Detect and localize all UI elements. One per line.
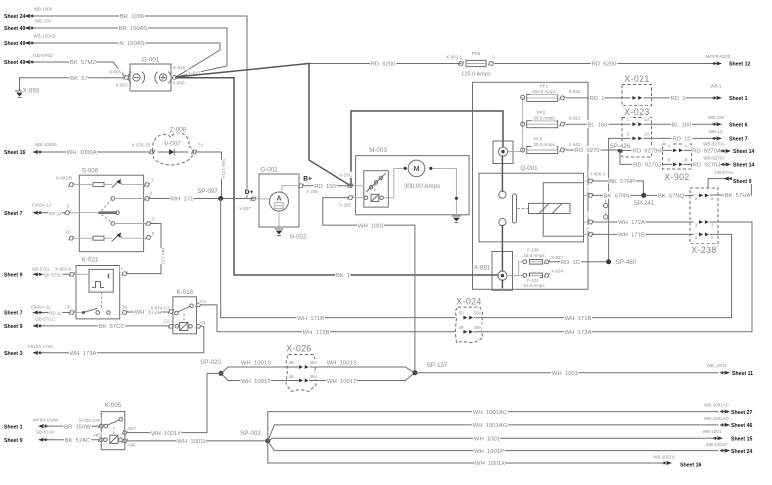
svg-text:BK 57SL: BK 57SL — [44, 273, 62, 278]
pins 2/2A — [632, 137, 642, 141]
wire contact to motor — [384, 168, 404, 197]
wire WH 1001X — [268, 462, 663, 464]
svg-text:WB-1001P: WB-1001P — [706, 442, 728, 447]
pin D+ X-237 — [251, 196, 257, 201]
sheet ref Sheet 24 — [724, 449, 730, 453]
svg-text:Sheet 16: Sheet 16 — [4, 150, 25, 156]
wire bus stud to switch contact — [501, 156, 503, 191]
junction SP-002 — [265, 438, 270, 443]
fuse feed column — [522, 97, 524, 151]
power distribution enclosure — [473, 82, 589, 289]
svg-text:A: A — [684, 143, 687, 148]
svg-text:Sheet 11: Sheet 11 — [732, 371, 753, 377]
svg-text:Sheet 49: Sheet 49 — [4, 41, 25, 47]
wire RD 1L — [43, 312, 70, 314]
svg-text:Sheet 7: Sheet 7 — [729, 137, 748, 143]
pins 45/45A — [299, 365, 309, 369]
svg-text:X-026: X-026 — [286, 344, 311, 354]
svg-text:X-924: X-924 — [551, 268, 564, 273]
starter motor M-003 box — [356, 156, 470, 215]
svg-text:WH 1001: WH 1001 — [358, 223, 384, 229]
pins A/A — [673, 149, 683, 153]
wire WH 1001 vertical to SP-137 — [414, 225, 416, 373]
svg-text:49: 49 — [458, 325, 464, 330]
pins X-021 — [632, 96, 642, 100]
switch blade — [513, 194, 517, 223]
svg-text:Sheet 9: Sheet 9 — [4, 273, 23, 279]
wire RD 1 — [566, 97, 630, 99]
svg-text:15.0 Amps: 15.0 Amps — [523, 253, 545, 258]
wire BK 57NQ — [646, 194, 698, 196]
svg-text:X-920: X-920 — [568, 89, 581, 94]
svg-text:RD 1: RD 1 — [589, 96, 604, 102]
svg-text:WB-9270A: WB-9270A — [703, 141, 725, 146]
diode symbol — [169, 149, 174, 155]
svg-text:MGFB-6200: MGFB-6200 — [706, 54, 731, 59]
svg-text:BK 57AC: BK 57AC — [65, 438, 92, 444]
wire BK 57MZ diag to battery - — [113, 62, 124, 78]
svg-text:A: A — [276, 196, 281, 203]
svg-text:Sheet 46: Sheet 46 — [731, 423, 752, 429]
svg-text:RD 9270H: RD 9270H — [632, 149, 661, 155]
svg-text:GB-57CC: GB-57CC — [35, 316, 55, 321]
svg-text:X-238: X-238 — [691, 245, 716, 255]
svg-text:WH 171B: WH 171B — [565, 316, 592, 322]
pin Q-001 4 — [588, 232, 594, 237]
wire bus switch to X-891 — [501, 226, 503, 271]
wire WH 171A down to WH 171B — [220, 199, 222, 318]
wire WH 171 to SP-097 and D+ — [149, 198, 253, 200]
svg-text:WH 1001AC: WH 1001AC — [473, 410, 508, 416]
svg-text:Sheet 9: Sheet 9 — [4, 438, 23, 444]
svg-text:1A: 1A — [644, 117, 650, 122]
wire RD 1C vertical — [608, 138, 610, 261]
wire BL 160 to sheet 6 — [644, 123, 717, 125]
svg-text:G-001: G-001 — [142, 57, 160, 64]
svg-text:WH 173A: WH 173A — [70, 351, 97, 357]
wire RO 9270 — [566, 149, 617, 151]
svg-text:B: B — [667, 157, 670, 162]
svg-text:X-023: X-023 — [624, 107, 649, 117]
pin 1 — [144, 196, 150, 201]
svg-text:RD 9270J: RD 9270J — [693, 163, 721, 169]
stud housing bottom — [492, 252, 513, 291]
solenoid box — [364, 171, 389, 207]
connector X-238 — [690, 188, 718, 244]
pin Q-001 Y-466-3 — [588, 179, 594, 184]
relay K-005 box — [101, 412, 125, 450]
svg-text:WH 1001X: WH 1001X — [475, 461, 505, 467]
svg-text:C4: C4 — [200, 299, 206, 304]
svg-text:WH 1001S: WH 1001S — [327, 361, 357, 367]
svg-text:X-035-A30: X-035-A30 — [79, 418, 101, 423]
wire into solenoid — [353, 185, 364, 187]
sheet ref Sheet 9 (BK 57CC) — [3, 323, 25, 330]
wire WH 1001 from starter — [323, 198, 415, 226]
svg-text:WB-1000A: WB-1000A — [35, 142, 57, 147]
junction SP-020 — [219, 371, 224, 376]
sheet ref Sheet 7 (RD 1L) — [3, 309, 25, 316]
svg-text:WH 1001: WH 1001 — [474, 436, 500, 442]
node motor right — [429, 167, 432, 170]
wire RD 9270H — [622, 149, 672, 151]
svg-text:Sheet 15: Sheet 15 — [731, 436, 752, 442]
relay K-018 box — [173, 297, 197, 334]
svg-text:50A: 50A — [473, 311, 481, 316]
pin C3 — [168, 309, 174, 314]
pin 9 — [146, 235, 152, 240]
ground N-002 — [275, 228, 283, 230]
svg-text:Sheet 49: Sheet 49 — [4, 60, 25, 66]
svg-text:250.0 Amps: 250.0 Amps — [532, 89, 557, 94]
svg-text:WH 172A: WH 172A — [618, 220, 645, 226]
pin A86 — [122, 439, 128, 444]
wire WH 171B vertical to X-238 — [731, 234, 733, 317]
ground X-893 — [16, 90, 24, 92]
svg-text:WH 1001L: WH 1001L — [177, 439, 207, 445]
svg-text:WH 172A: WH 172A — [565, 330, 592, 336]
wire to F-101 — [519, 274, 523, 276]
svg-text:Sheet 24: Sheet 24 — [731, 449, 752, 455]
svg-text:RO 1J: RO 1J — [49, 211, 62, 216]
svg-text:RD 6200: RD 6200 — [371, 62, 397, 68]
svg-text:50: 50 — [458, 311, 464, 316]
svg-text:X-201: X-201 — [339, 173, 352, 178]
svg-text:WB-1001AG: WB-1001AG — [704, 416, 730, 421]
sheet ref Sheet 49 (3) — [3, 59, 28, 66]
wire WH 1001L — [127, 440, 266, 442]
svg-text:PF2: PF2 — [537, 110, 546, 115]
connector X-021 — [622, 85, 652, 106]
svg-text:X-024: X-024 — [456, 297, 481, 307]
svg-text:WH 171: WH 171 — [171, 197, 194, 203]
battery pin X-800 — [172, 75, 178, 80]
svg-text:C2: C2 — [164, 319, 170, 324]
junction SP-426 — [618, 148, 623, 153]
svg-text:PFB: PFB — [472, 51, 481, 56]
svg-text:BR 150AS: BR 150AS — [118, 26, 147, 32]
svg-text:X-805: X-805 — [109, 70, 122, 75]
svg-text:SP-426: SP-426 — [610, 143, 631, 150]
battery + terminal — [159, 74, 166, 81]
wire RD 150 alternator B+ to starter — [303, 185, 348, 187]
sheet ref Sheet 7 — [3, 209, 25, 216]
connector X-024 cloud — [455, 307, 482, 343]
fuse PF2 30.0 Amps — [521, 122, 525, 126]
svg-text:125.0 Amps: 125.0 Amps — [461, 72, 491, 78]
pin C1 — [196, 324, 202, 329]
svg-text:WB-160: WB-160 — [708, 115, 725, 120]
alternator G-002 box — [259, 174, 299, 227]
wire into contact — [353, 197, 365, 199]
wire BK 57MZ — [35, 61, 113, 63]
svg-text:BL 160: BL 160 — [671, 122, 692, 128]
sheet ref Sheet 49 — [3, 25, 28, 32]
sheet ref Sheet 11 — [724, 371, 730, 375]
wire WH 172A timer to relay K-018 — [127, 311, 169, 313]
svg-text:WFB3-150W: WFB3-150W — [33, 418, 60, 423]
stud terminal top — [498, 147, 507, 156]
wire timer pin7 to switch — [127, 273, 161, 275]
svg-text:BK 1: BK 1 — [336, 273, 350, 279]
svg-text:RD 9270J: RD 9270J — [633, 163, 661, 169]
svg-text:WH 1001: WH 1001 — [552, 371, 578, 377]
wire BK 57SL — [43, 273, 70, 275]
solenoid contact — [364, 196, 368, 200]
svg-text:t: t — [107, 274, 110, 281]
wire BK 57 — [20, 77, 125, 79]
battery G-001 — [130, 64, 171, 91]
K-005 contact lever — [104, 424, 108, 428]
svg-text:RD 9270A: RD 9270A — [692, 149, 721, 155]
svg-text:Q-001: Q-001 — [520, 165, 538, 172]
wire battery + to RD 6200 node — [176, 64, 309, 78]
pin 6 — [69, 310, 75, 315]
wire stud to fuse column — [508, 151, 521, 153]
wire RO 1J — [43, 212, 66, 214]
svg-text:WH 171B: WH 171B — [297, 316, 324, 322]
svg-text:Sheet 24: Sheet 24 — [4, 14, 25, 20]
svg-text:WH 1001AG: WH 1001AG — [473, 423, 508, 429]
svg-text:RD 1L: RD 1L — [49, 311, 62, 316]
svg-text:PF9: PF9 — [534, 136, 543, 141]
svg-text:300.00 Amps: 300.00 Amps — [404, 183, 440, 190]
svg-text:BR 150W: BR 150W — [64, 424, 91, 430]
sheet ref Sheet 1 (right) — [716, 96, 722, 100]
wire WH 172A vertical to X-238 — [751, 222, 753, 332]
pin 2 — [65, 210, 71, 215]
svg-text:GB-57AC: GB-57AC — [36, 430, 56, 435]
svg-text:46A: 46A — [309, 374, 317, 379]
wire starter B+ to switch stud — [351, 111, 503, 186]
wire BR 1006 — [35, 15, 247, 17]
svg-text:SP-002: SP-002 — [240, 430, 261, 437]
wire BK 57NN — [593, 194, 642, 196]
svg-text:WH 1001P: WH 1001P — [474, 449, 504, 455]
unused pins column — [605, 200, 607, 204]
wire WH 171A — [196, 151, 221, 153]
wire BR 150W — [49, 425, 100, 427]
svg-text:X-602-9: X-602-9 — [55, 267, 72, 272]
svg-text:WH 1001S: WH 1001S — [241, 361, 271, 367]
pins 2/2 — [699, 194, 709, 198]
svg-text:WH 171B: WH 171B — [618, 233, 645, 239]
svg-text:M: M — [414, 166, 420, 173]
wire BR 1006 vertical to D+ — [246, 16, 248, 199]
wire BK 57CC to relay C2 — [43, 325, 169, 327]
sheet ref Sheet 9 — [3, 271, 25, 278]
wire alternator to ground — [278, 211, 280, 229]
switch row lower contact — [79, 237, 93, 239]
svg-text:B: B — [684, 157, 687, 162]
wire RD 1C lower — [550, 261, 607, 263]
switch contact lower — [499, 219, 506, 226]
pin 7 — [122, 271, 128, 276]
switch contact upper — [499, 191, 506, 198]
svg-text:K-018: K-018 — [176, 289, 193, 296]
pin X-201 — [348, 183, 354, 188]
svg-text:WB_1001: WB_1001 — [707, 363, 727, 368]
wire RD 6200 to sheet 12 — [495, 63, 713, 65]
svg-text:N 150AS: N 150AS — [119, 41, 144, 47]
wire WH 171B (Q-001 to X-238) — [593, 233, 699, 235]
svg-text:X-891: X-891 — [474, 265, 491, 272]
wire RD 1 to sheet 1 — [644, 97, 717, 99]
svg-text:Sheet 12: Sheet 12 — [729, 62, 750, 68]
svg-text:X-236: X-236 — [306, 189, 319, 194]
connector X-026 cloud — [286, 355, 316, 392]
svg-text:WB-150: WB-150 — [35, 19, 52, 24]
K-005 coil resistor — [110, 435, 118, 443]
svg-text:WH 1000A: WH 1000A — [67, 150, 97, 156]
svg-text:S-006: S-006 — [82, 168, 99, 175]
wire to sheet 9 arrow — [708, 178, 751, 180]
svg-text:WB-1006: WB-1006 — [34, 7, 53, 12]
wire WH 171B — [221, 317, 455, 319]
svg-text:SP-241: SP-241 — [634, 200, 655, 207]
wire WH 1001S right — [310, 367, 415, 373]
wire WH 171A vertical — [221, 152, 223, 199]
pins 49/49A — [463, 330, 473, 334]
wire BK 57NP — [593, 180, 644, 182]
svg-text:Y-466-3: Y-466-3 — [590, 172, 606, 177]
svg-text:10: 10 — [65, 230, 71, 235]
svg-text:Sheet 49: Sheet 49 — [4, 26, 25, 32]
svg-text:Sheet 3: Sheet 3 — [4, 351, 23, 357]
sheet ref Sheet 7 (right) — [716, 136, 722, 140]
sheet ref Sheet 16 (bottom) — [666, 461, 672, 465]
pins 3/3 — [699, 220, 709, 224]
node motor left — [404, 167, 407, 170]
sheet ref Sheet 16 — [3, 149, 28, 156]
wire WH 171B right of X-238 — [710, 233, 732, 235]
svg-text:SP-020: SP-020 — [200, 359, 221, 366]
svg-text:Sheet 7: Sheet 7 — [4, 311, 23, 317]
connector X-902 — [663, 144, 692, 169]
wire N 150AS — [35, 42, 220, 44]
pin 10 — [69, 236, 75, 241]
pin Q-001 2 — [588, 193, 594, 198]
svg-text:WB-1001: WB-1001 — [703, 429, 722, 434]
svg-text:WH 1001T: WH 1001T — [327, 379, 357, 385]
svg-text:K-021: K-021 — [82, 257, 99, 264]
svg-text:Sheet 9: Sheet 9 — [733, 179, 752, 185]
fuse PF1 250.0 Amps — [521, 95, 525, 99]
svg-text:PF1: PF1 — [540, 84, 549, 89]
svg-text:G-002: G-002 — [260, 167, 278, 174]
stud terminal X-891 — [498, 271, 507, 280]
svg-text:RD 6200: RD 6200 — [592, 62, 618, 68]
svg-text:45A: 45A — [309, 360, 317, 365]
svg-text:BL 160: BL 160 — [587, 122, 608, 128]
node — [455, 197, 458, 200]
svg-text:WB-1: WB-1 — [710, 84, 722, 89]
sheet ref Sheet 14 — [725, 149, 731, 153]
wire WH 172A (Q-001 to X-238) — [593, 221, 699, 223]
svg-text:A85: A85 — [93, 433, 102, 438]
motor M symbol — [408, 160, 425, 177]
svg-text:X-902: X-902 — [664, 172, 689, 182]
fuse PF9 30.0 Amps — [521, 148, 525, 152]
svg-text:30.0 Amps: 30.0 Amps — [533, 142, 555, 147]
svg-text:WB-150AS: WB-150AS — [33, 34, 55, 39]
wire bus below X-891 — [501, 280, 503, 287]
svg-text:F260A-1J: F260A-1J — [32, 203, 52, 208]
wire RD 1C to sheet 7 — [644, 137, 717, 139]
wire WH 1000A — [43, 151, 150, 153]
pin X-076-7B — [149, 150, 155, 155]
svg-text:RD 1C: RD 1C — [672, 137, 692, 143]
svg-text:Sheet 14: Sheet 14 — [733, 149, 754, 155]
timer element — [89, 269, 113, 292]
wire WH 1001T left — [221, 373, 298, 380]
wire WH 1001AC — [268, 411, 718, 413]
battery disconnect switch Q-001 box — [479, 173, 584, 242]
svg-text:WH 1001Y: WH 1001Y — [151, 431, 181, 437]
sheet ref Sheet 46 — [724, 423, 730, 427]
wire BK 57AC — [49, 439, 100, 441]
pins B/B — [673, 163, 683, 167]
wire RD 6200 to fuse PFB — [309, 63, 461, 65]
pin B+ X-236 — [298, 183, 304, 188]
svg-text:Sheet 14: Sheet 14 — [733, 163, 754, 169]
switch handle — [529, 203, 571, 213]
pin K-021 left — [69, 272, 75, 277]
sheet ref Sheet 3 — [3, 349, 25, 356]
pin X-202 — [348, 195, 354, 200]
svg-text:WH 1001T: WH 1001T — [241, 379, 271, 385]
wire WH 1001 — [268, 438, 714, 441]
wire WH 173A relay C1 to sheet 3 — [43, 326, 204, 353]
svg-text:GB-57SL: GB-57SL — [32, 267, 51, 272]
svg-text:Z-008: Z-008 — [170, 127, 187, 134]
wire WH 1001Y to K-005 — [127, 373, 221, 432]
switch row upper contact — [79, 184, 93, 186]
sheet ref Sheet 6 — [716, 122, 722, 126]
wire BK 57HA — [710, 194, 751, 196]
wire SP-002 bracket — [267, 412, 269, 463]
wire WH 1001 to sheet 11 — [415, 372, 718, 374]
svg-text:X-893: X-893 — [23, 88, 40, 95]
svg-text:GB-57MZ: GB-57MZ — [33, 53, 53, 58]
svg-text:BK 57: BK 57 — [70, 76, 88, 82]
svg-text:7A: 7A — [198, 143, 204, 148]
svg-text:BK 57NQ: BK 57NQ — [658, 194, 685, 200]
wire RD 1C upper — [609, 137, 630, 139]
fuse F-100 15.0 Amps — [523, 260, 527, 264]
wire N 150AS to battery + — [176, 43, 220, 77]
switch rotary wiper — [79, 212, 99, 214]
svg-text:X-202: X-202 — [339, 203, 352, 208]
wire WH 1001AG — [268, 425, 718, 441]
svg-text:BK 57MZ: BK 57MZ — [70, 60, 97, 66]
svg-text:GB-57HA: GB-57HA — [714, 170, 733, 175]
svg-text:Sheet 27: Sheet 27 — [731, 410, 752, 416]
svg-text:RD 1: RD 1 — [670, 96, 685, 102]
sheet ref Sheet 12 — [716, 61, 722, 65]
pin 7A — [191, 150, 197, 155]
wire B+ out of alternator — [282, 186, 299, 193]
svg-text:C1: C1 — [200, 320, 206, 325]
ignition switch S-006 box — [79, 175, 143, 251]
svg-text:X-074-C3: X-074-C3 — [150, 306, 170, 311]
wire RD 9270J — [620, 150, 672, 164]
pin C2 — [168, 324, 174, 329]
svg-text:F860A-1L: F860A-1L — [31, 305, 51, 310]
solenoid coil — [367, 174, 386, 192]
pin Q-001 1 — [588, 220, 594, 225]
svg-text:F815A-173A: F815A-173A — [28, 344, 53, 349]
